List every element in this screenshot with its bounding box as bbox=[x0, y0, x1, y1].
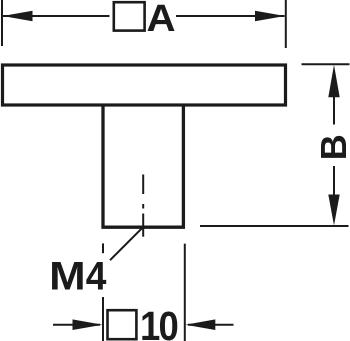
arrowhead 10 left bbox=[73, 319, 103, 330]
centerline dash upper bbox=[142, 175, 144, 195]
arrowhead B top bbox=[328, 65, 339, 98]
label M4 bbox=[49, 254, 86, 298]
extension line top of dimension B bbox=[302, 63, 350, 65]
centerline dot bbox=[142, 204, 144, 209]
svg-text:B: B bbox=[313, 134, 350, 160]
dimension line B lower segment bbox=[333, 166, 335, 196]
arrowhead 10 right bbox=[185, 319, 215, 330]
square symbol of dimension 10 bbox=[108, 310, 137, 339]
svg-text:A: A bbox=[146, 0, 175, 40]
dimension line A right segment bbox=[176, 15, 285, 17]
extension line right of dimension 10 bbox=[184, 244, 186, 341]
dimension line 10 left tail bbox=[53, 324, 100, 326]
svg-text:10: 10 bbox=[140, 304, 177, 341]
extension line bottom of dimension B bbox=[200, 225, 349, 227]
leader line M4 bbox=[110, 226, 144, 260]
dimension line A left segment bbox=[3, 15, 110, 17]
arrowhead A right bbox=[255, 11, 285, 22]
label 10 bbox=[140, 304, 177, 341]
knob stem outline bbox=[103, 106, 183, 227]
label A bbox=[146, 0, 175, 40]
knob top plate outline bbox=[3, 65, 286, 105]
svg-text:M: M bbox=[49, 254, 86, 298]
extension line left of dimension A bbox=[1, 0, 3, 46]
arrowhead A left bbox=[3, 11, 33, 22]
extension line left of dimension 10 upper segment bbox=[102, 243, 104, 253]
extension line right of dimension A bbox=[285, 0, 287, 48]
dimension line B upper segment bbox=[333, 96, 335, 125]
square symbol of dimension A bbox=[114, 2, 145, 30]
centerline dash lower bbox=[142, 214, 144, 237]
extension line left of dimension 10 lower segment bbox=[102, 297, 104, 341]
svg-text:4: 4 bbox=[86, 254, 107, 298]
dimension line 10 right tail bbox=[188, 324, 234, 326]
arrowhead B bottom bbox=[328, 195, 339, 226]
